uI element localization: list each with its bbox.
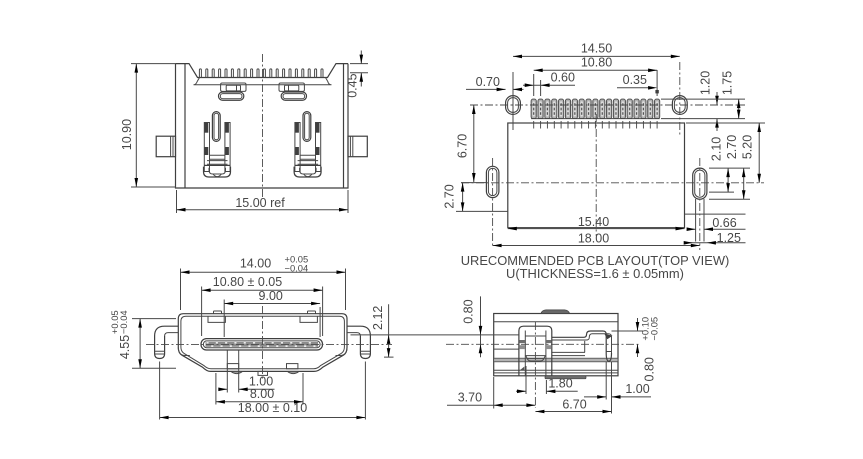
dimension 2.10 bbox=[709, 137, 734, 192]
lower-left oval pad bbox=[486, 166, 499, 197]
centerline horizontal lower ovals bbox=[461, 182, 764, 184]
centerline upper ovals bbox=[679, 62, 681, 135]
svg-text:0.70: 0.70 bbox=[476, 75, 500, 89]
svg-text:2.12: 2.12 bbox=[371, 306, 385, 330]
contact arm lines bbox=[494, 341, 585, 356]
top bump left bbox=[214, 311, 222, 314]
svg-text:2.10: 2.10 bbox=[710, 137, 724, 161]
dimension 1.25 bbox=[684, 214, 746, 245]
left leg bbox=[155, 326, 179, 419]
svg-text:10.90: 10.90 bbox=[120, 119, 134, 150]
dimension 10.90 bbox=[120, 64, 176, 187]
bracket centerline bbox=[534, 322, 536, 408]
bracket foot toe bbox=[520, 367, 525, 371]
dimension 8.00 bbox=[216, 373, 303, 405]
svg-text:10.80: 10.80 bbox=[581, 56, 612, 70]
smt lead bbox=[552, 331, 612, 361]
side body outline bbox=[494, 314, 618, 376]
svg-text:1.00: 1.00 bbox=[625, 382, 649, 396]
dimension 14.50 bbox=[513, 42, 680, 59]
bottom bump right bbox=[287, 371, 299, 373]
centerline lower-right oval bbox=[699, 158, 701, 250]
svg-text:0.60: 0.60 bbox=[551, 71, 575, 85]
svg-text:−0.04: −0.04 bbox=[285, 263, 309, 274]
top view body shell bbox=[176, 64, 349, 188]
top window right bbox=[300, 316, 317, 322]
bottom bump left bbox=[231, 371, 243, 373]
svg-text:0.66: 0.66 bbox=[712, 216, 736, 230]
svg-text:0.80: 0.80 bbox=[461, 299, 475, 323]
svg-text:2.70: 2.70 bbox=[443, 184, 457, 208]
svg-text:1.80: 1.80 bbox=[548, 377, 572, 391]
dimension 18.00 +- 0.10 bbox=[160, 401, 366, 419]
dimension 9.00 bbox=[224, 289, 320, 337]
right mounting tab bbox=[348, 136, 367, 157]
right leg bbox=[347, 326, 370, 419]
centerline lower-left oval bbox=[492, 158, 494, 248]
svg-text:15.40: 15.40 bbox=[578, 215, 609, 229]
svg-text:4.55: 4.55 bbox=[118, 335, 132, 359]
top window left bbox=[208, 316, 225, 322]
dimension 10.80 +- 0.05 bbox=[202, 275, 323, 336]
svg-text:0.45: 0.45 bbox=[346, 73, 360, 97]
dimension 2.70 left bbox=[443, 183, 508, 212]
front shell outer bbox=[178, 314, 347, 372]
dimension 1.00 pin bbox=[584, 362, 651, 400]
dimension 0.60 bbox=[523, 71, 575, 97]
dimension 1.75 bbox=[661, 71, 745, 119]
front shell inner bbox=[181, 316, 345, 369]
front view vertical centerline bbox=[262, 306, 264, 381]
svg-text:−0.04: −0.04 bbox=[118, 310, 129, 334]
dimension 15.00 ref bbox=[177, 190, 349, 213]
lower-right oval pad bbox=[693, 168, 707, 241]
svg-text:3.70: 3.70 bbox=[458, 391, 482, 405]
svg-text:1.25: 1.25 bbox=[717, 231, 741, 245]
side body top inner line bbox=[494, 321, 618, 323]
right latch clip bbox=[279, 83, 307, 100]
tongue pins zipper bbox=[206, 342, 319, 347]
dimension 6.70 left bbox=[456, 105, 487, 183]
svg-text:9.00: 9.00 bbox=[259, 289, 283, 303]
top latch bump bbox=[541, 310, 570, 314]
dimension 0.70 bbox=[466, 75, 524, 91]
left mounting tab bbox=[156, 136, 175, 157]
tongue outer bbox=[201, 339, 323, 350]
dimension 0.80 +0.10 -0.05 right bbox=[604, 317, 659, 382]
top bump right bbox=[308, 311, 316, 314]
bottom tab right bbox=[287, 364, 298, 369]
dimension 1.00 bbox=[218, 351, 274, 393]
seating line inside body bbox=[481, 334, 519, 336]
svg-text:6.70: 6.70 bbox=[456, 134, 470, 158]
svg-text:15.00 ref: 15.00 ref bbox=[235, 196, 285, 210]
right round pad bbox=[672, 96, 687, 115]
dimension 3.70 bbox=[447, 377, 535, 409]
svg-text:1.20: 1.20 bbox=[699, 71, 713, 95]
dimension 6.70 bbox=[535, 362, 611, 414]
dimension 5.20 bbox=[686, 123, 765, 183]
svg-text:U(THICKNESS=1.6 ± 0.05mm): U(THICKNESS=1.6 ± 0.05mm) bbox=[506, 266, 684, 281]
svg-text:0.80: 0.80 bbox=[643, 357, 657, 381]
svg-text:2.70: 2.70 bbox=[725, 135, 739, 159]
centerline vertical footprint bbox=[595, 114, 597, 236]
pad row (19 solder pads) bbox=[531, 99, 660, 119]
side view axis centerline bbox=[446, 343, 640, 345]
svg-text:18.00: 18.00 bbox=[578, 231, 609, 245]
tongue inner line bbox=[203, 341, 320, 348]
dimension 0.66 bbox=[687, 216, 746, 231]
dimension 0.80 left bbox=[461, 296, 482, 357]
bottom center tab bbox=[258, 371, 268, 375]
dimension 14.00 +0.05 -0.04 bbox=[181, 254, 346, 311]
dimension 15.40 bbox=[508, 215, 685, 231]
pcb band bbox=[494, 358, 618, 373]
svg-text:5.20: 5.20 bbox=[741, 135, 755, 159]
svg-text:6.70: 6.70 bbox=[562, 398, 586, 412]
dimension 2.12 bbox=[371, 304, 394, 357]
pcb footprint outline bbox=[508, 123, 685, 228]
dimension 0.45 bbox=[346, 51, 369, 98]
left spring contact bbox=[204, 112, 231, 177]
svg-text:1.75: 1.75 bbox=[721, 71, 735, 95]
solder foot bar bbox=[545, 376, 586, 379]
dimension 2.70 right bbox=[709, 135, 750, 199]
front view horizontal centerline bbox=[146, 343, 392, 345]
svg-text:0.35: 0.35 bbox=[623, 73, 647, 87]
front shell corner detail bbox=[178, 348, 347, 356]
dimension 1.20 bbox=[699, 71, 719, 131]
svg-text:18.00 ± 0.10: 18.00 ± 0.10 bbox=[238, 401, 307, 415]
dimension 18.00 bbox=[493, 231, 700, 247]
svg-text:10.80 ± 0.05: 10.80 ± 0.05 bbox=[213, 275, 282, 289]
pin comb row bbox=[199, 69, 323, 78]
svg-text:8.00: 8.00 bbox=[250, 387, 274, 401]
bottom tab left bbox=[227, 364, 238, 369]
dimension 1.80 bbox=[516, 366, 578, 394]
seating reference line bbox=[351, 334, 481, 336]
latch bracket side bbox=[519, 326, 552, 376]
left round pad bbox=[506, 96, 521, 115]
centerline horizontal pad row bbox=[470, 104, 745, 106]
svg-text:14.00: 14.00 bbox=[240, 257, 271, 271]
dimension 0.35 bbox=[617, 73, 659, 93]
dimension 10.80 pads bbox=[534, 56, 657, 97]
right spring contact bbox=[294, 112, 321, 177]
top view vertical centerline bbox=[262, 54, 264, 197]
left latch clip bbox=[219, 83, 247, 100]
svg-text:−0.05: −0.05 bbox=[649, 317, 660, 341]
svg-text:14.50: 14.50 bbox=[581, 42, 612, 56]
pad row bottom line bbox=[531, 118, 660, 120]
dimension 4.55 +0.05 -0.04 bbox=[109, 310, 176, 368]
